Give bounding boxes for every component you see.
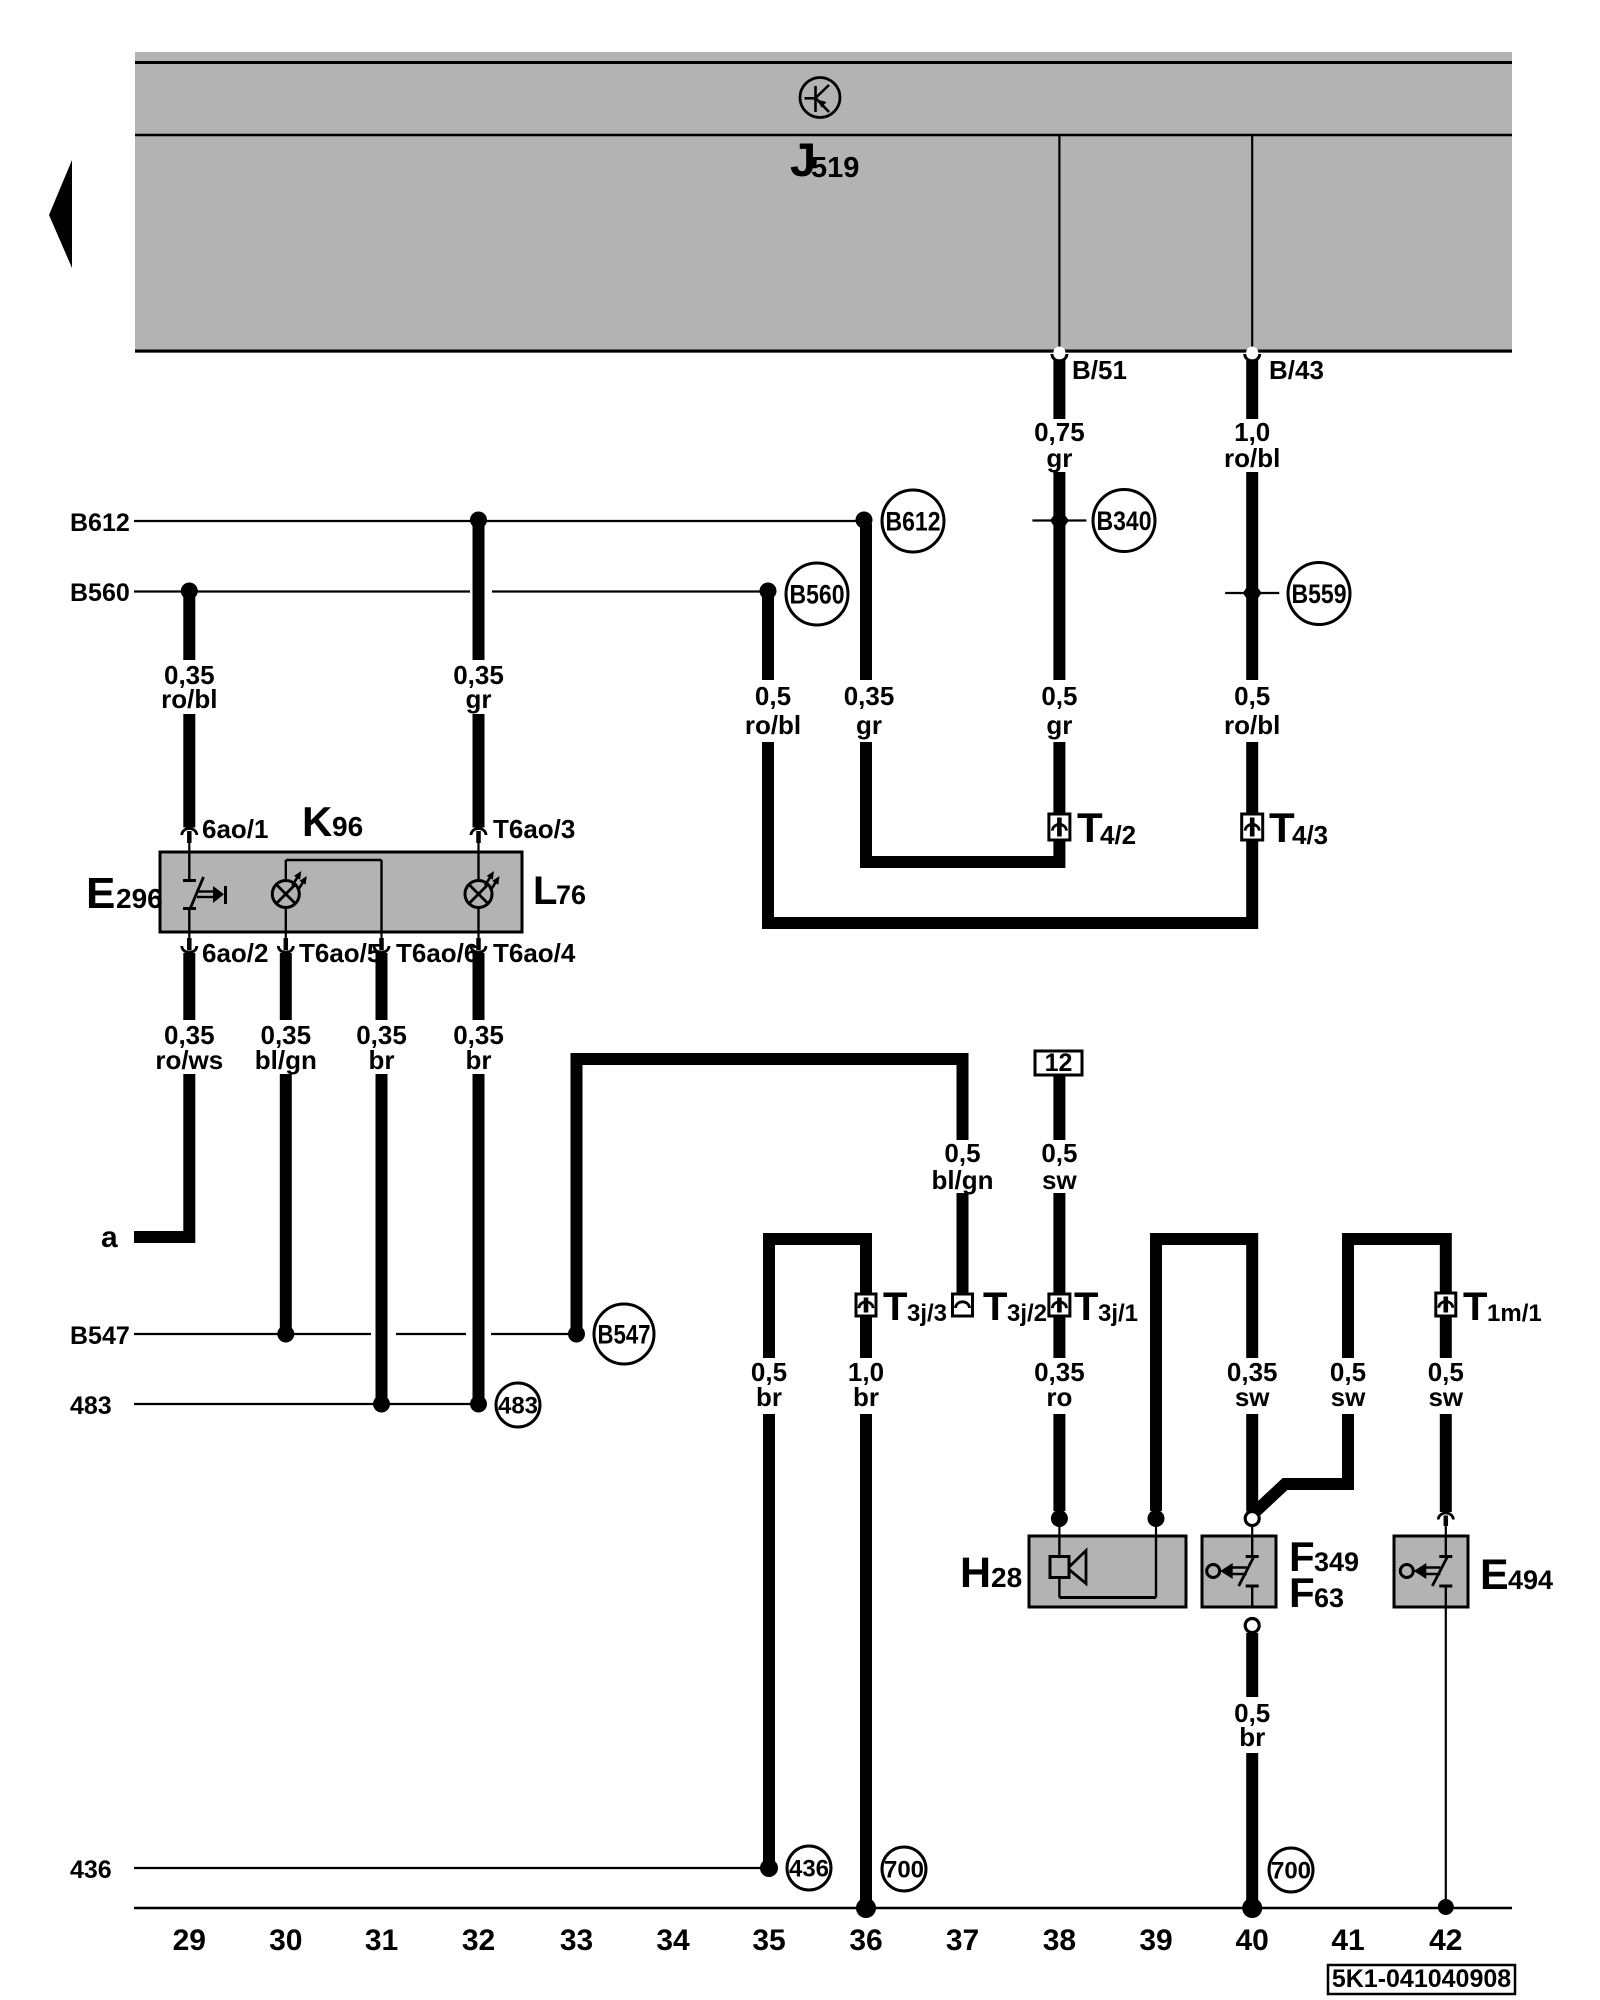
svg-text:0,5: 0,5 xyxy=(1041,681,1077,711)
svg-text:H: H xyxy=(960,1549,991,1597)
junction br t31 on 483 xyxy=(373,1396,390,1413)
wire 0,35 gr U-route to T4/2 xyxy=(866,742,1059,862)
F63 top lead xyxy=(1251,1526,1253,1536)
H28 pin2 lead xyxy=(1155,1526,1157,1536)
wire 0,5 br to 436 rail xyxy=(763,1414,775,1863)
svg-text:T6ao/4: T6ao/4 xyxy=(493,938,576,968)
svg-text:349: 349 xyxy=(1314,1547,1359,1577)
junction br t32 on 483 xyxy=(470,1396,487,1413)
svg-text:28: 28 xyxy=(991,1562,1022,1593)
J519 band bottom border line xyxy=(135,350,1512,353)
svg-text:E: E xyxy=(1480,1551,1509,1599)
svg-text:B/43: B/43 xyxy=(1269,355,1324,385)
connector T3j/1 xyxy=(1049,1294,1070,1316)
svg-text:76: 76 xyxy=(556,880,586,910)
pin socket at E494 xyxy=(1438,1513,1453,1519)
wire 0,5 sw kink into F63 splice xyxy=(1254,1414,1348,1513)
positive wire rail B560 (left) xyxy=(134,590,470,592)
svg-text:K: K xyxy=(302,798,332,845)
designation circle B612 xyxy=(882,490,944,552)
pin T6ao/5 socket xyxy=(285,931,287,940)
wire 0,5 sw t42 (upper) xyxy=(1440,1316,1452,1358)
ground rail 436 xyxy=(134,1867,768,1869)
svg-text:700: 700 xyxy=(1271,1858,1311,1885)
svg-text:ro/ws: ro/ws xyxy=(155,1045,223,1075)
svg-text:T6ao/3: T6ao/3 xyxy=(493,814,575,844)
svg-text:br: br xyxy=(853,1382,879,1412)
connector T3j/3 xyxy=(856,1294,876,1316)
svg-text:sw: sw xyxy=(1428,1382,1463,1412)
ground rail B547 segment 2 xyxy=(396,1333,466,1335)
junction 0,5 br on 436 xyxy=(760,1859,778,1877)
pin T6ao/6 socket xyxy=(380,931,382,940)
svg-text:63: 63 xyxy=(1314,1583,1344,1613)
wire 0,35 ro/bl from B560 to E296 (upper) xyxy=(183,594,195,660)
switch symbol F63 xyxy=(1251,1536,1253,1557)
svg-text:T6ao/6: T6ao/6 xyxy=(396,938,478,968)
wire loop 436 to T3j/3 xyxy=(769,1239,866,1358)
connector T1m/1 xyxy=(1436,1293,1456,1316)
H28 pin1 lead xyxy=(1058,1526,1060,1536)
svg-text:ro/bl: ro/bl xyxy=(745,710,801,740)
svg-text:B559: B559 xyxy=(1292,579,1347,609)
indicator lamp K96 symbol xyxy=(272,881,299,908)
junction 0,5 br on ground rail xyxy=(1242,1898,1262,1918)
designation circle 436 xyxy=(787,1846,831,1890)
horn H28 box xyxy=(1029,1536,1186,1607)
indicator lamp L76 symbol xyxy=(465,881,492,908)
wire end splice at H28 pin 2 xyxy=(1148,1510,1165,1527)
wire 0,35 br t32 (upper) xyxy=(473,953,485,1020)
svg-text:sw: sw xyxy=(1235,1382,1270,1412)
J519 band top border line xyxy=(135,61,1512,64)
svg-text:34: 34 xyxy=(656,1924,690,1957)
switch E296 symbol xyxy=(188,852,190,880)
svg-text:12: 12 xyxy=(1045,1049,1073,1077)
svg-text:0,5: 0,5 xyxy=(1234,681,1270,711)
svg-text:96: 96 xyxy=(332,811,363,842)
svg-text:35: 35 xyxy=(752,1924,785,1957)
wire ro/bl down to B559 splice xyxy=(1246,472,1258,680)
svg-text:gr: gr xyxy=(1046,710,1072,740)
svg-text:sw: sw xyxy=(1331,1382,1366,1412)
svg-text:B547: B547 xyxy=(70,1322,130,1350)
svg-text:483: 483 xyxy=(498,1393,538,1420)
wire 0,35 bl/gn to B547 xyxy=(280,1074,292,1330)
svg-text:gr: gr xyxy=(1046,443,1072,473)
wire 0,35 br t32 to 483 xyxy=(473,1074,485,1400)
svg-text:B612: B612 xyxy=(886,507,941,537)
wire 0,5 ro/bl down to connector T4/3 xyxy=(1246,742,1258,814)
svg-text:1m/1: 1m/1 xyxy=(1487,1300,1542,1327)
svg-text:3j/3: 3j/3 xyxy=(907,1300,947,1327)
designation circle B560 xyxy=(786,563,848,625)
svg-text:30: 30 xyxy=(269,1924,302,1957)
pin T6ao/3 socket xyxy=(471,829,486,835)
splice circle below F63 xyxy=(1245,1619,1259,1633)
socket symbol at J519 pin B/51 xyxy=(1053,347,1065,359)
svg-text:ro/bl: ro/bl xyxy=(1224,710,1280,740)
svg-text:3j/2: 3j/2 xyxy=(1007,1300,1047,1327)
svg-text:T: T xyxy=(883,1285,907,1329)
positive wire rail B560 (right) xyxy=(492,590,768,592)
direction arrow left of J519 xyxy=(49,160,72,268)
svg-text:0,5: 0,5 xyxy=(944,1138,980,1168)
junction 1,0 br on ground rail xyxy=(856,1898,876,1918)
wire 1,0 br (upper) xyxy=(860,1316,872,1358)
junction of B560 wire end xyxy=(760,583,777,600)
wire 0,35 gr to pin T6ao/3 xyxy=(473,714,485,828)
wire 0,35 br t31 to 483 xyxy=(376,1074,388,1400)
pin T6ao/4 socket xyxy=(477,931,479,940)
svg-text:B560: B560 xyxy=(70,579,130,607)
splice tick line at B340 xyxy=(1032,519,1086,521)
svg-text:700: 700 xyxy=(884,1857,924,1884)
svg-text:38: 38 xyxy=(1043,1924,1076,1957)
junction of B612 wire end xyxy=(856,512,873,529)
junction E494 lead on ground rail xyxy=(1438,1899,1454,1915)
svg-text:L: L xyxy=(533,869,557,913)
diagram number box xyxy=(1328,1965,1515,1994)
wire 0,5 sw to T3j/1 xyxy=(1053,1193,1065,1294)
svg-text:3j/1: 3j/1 xyxy=(1098,1300,1138,1327)
svg-text:39: 39 xyxy=(1139,1924,1172,1957)
wire 0,35 ro (upper) xyxy=(1053,1316,1065,1358)
wire 0,5 br below F63 (upper) xyxy=(1246,1633,1258,1697)
wire 0,35 ro to H28 xyxy=(1053,1414,1065,1511)
svg-text:a: a xyxy=(101,1221,118,1254)
wire 0,35 bl/gn (upper) xyxy=(280,953,292,1020)
svg-text:br: br xyxy=(756,1382,782,1412)
svg-text:sw: sw xyxy=(1042,1165,1077,1195)
svg-text:42: 42 xyxy=(1429,1924,1462,1957)
K96 lamp internal wiring xyxy=(285,860,287,881)
wire loop H28 to F63 xyxy=(1156,1239,1252,1511)
wire gr down to B340 splice xyxy=(1053,472,1065,680)
splice B340 on gr wire xyxy=(1050,508,1069,534)
svg-text:32: 32 xyxy=(462,1924,495,1957)
wire 0,35 sw to splice at F63 xyxy=(1246,1414,1258,1512)
svg-text:ro/bl: ro/bl xyxy=(161,684,217,714)
svg-text:B560: B560 xyxy=(790,580,845,610)
wire 1,0 br to ground rail xyxy=(860,1414,872,1903)
switch E494 box xyxy=(1394,1536,1468,1607)
control unit J519 body xyxy=(135,52,1512,353)
svg-text:br: br xyxy=(1239,1722,1265,1752)
svg-text:0,5: 0,5 xyxy=(1041,1138,1077,1168)
E494 ground lead to rail xyxy=(1445,1607,1447,1903)
svg-text:br: br xyxy=(466,1045,492,1075)
svg-text:33: 33 xyxy=(560,1924,593,1957)
junction of gr wire on B612 xyxy=(470,512,487,529)
svg-text:29: 29 xyxy=(173,1924,206,1957)
svg-text:37: 37 xyxy=(946,1924,979,1957)
wire inside J519 to pin B/43 xyxy=(1251,136,1253,357)
svg-text:41: 41 xyxy=(1331,1924,1364,1957)
svg-text:E: E xyxy=(86,869,115,918)
svg-text:31: 31 xyxy=(365,1924,398,1957)
svg-text:436: 436 xyxy=(789,1856,829,1883)
splice circle above F63 xyxy=(1245,1512,1259,1526)
ground rail 483 xyxy=(134,1403,479,1405)
wire 0,35 ro/ws to terminal a xyxy=(134,1074,189,1237)
terminal 12 box xyxy=(1035,1051,1082,1075)
svg-text:T6ao/5: T6ao/5 xyxy=(299,938,381,968)
svg-text:296: 296 xyxy=(116,883,163,914)
loudspeaker symbol in H28 xyxy=(1050,1557,1069,1578)
L76 lamp internal wiring xyxy=(477,852,479,881)
wire 0,35 ro/ws (upper) xyxy=(183,953,195,1020)
H28 internal wiring xyxy=(1058,1536,1060,1557)
designation circle 483 xyxy=(496,1383,540,1427)
wire 0,5 sw from terminal 12 xyxy=(1053,1075,1065,1140)
J519 band inner horizontal line xyxy=(135,134,1512,137)
connector T4/2 xyxy=(1049,814,1070,840)
ground rail B547 segment 3 xyxy=(491,1333,577,1335)
wire 1,0 ro/bl from J519 B/43 (upper) xyxy=(1246,361,1258,420)
wire 0,35 gr from B612 (upper) xyxy=(860,524,872,680)
bus system symbol in J519 xyxy=(800,78,840,118)
switch symbol E494 xyxy=(1445,1536,1447,1557)
wire inside J519 to pin B/51 xyxy=(1058,136,1060,357)
wire 0,75 gr from J519 B/51 (upper) xyxy=(1053,361,1065,420)
svg-text:0,35: 0,35 xyxy=(844,681,895,711)
wire 0,35 gr from B612 to L76 (upper) xyxy=(473,524,485,660)
socket symbol at J519 pin B/43 xyxy=(1246,347,1258,359)
svg-text:bl/gn: bl/gn xyxy=(931,1165,993,1195)
wire loop 0,5 sw pair xyxy=(1348,1239,1446,1358)
svg-text:T: T xyxy=(1074,1285,1098,1329)
svg-text:F: F xyxy=(1289,1569,1315,1616)
svg-text:bl/gn: bl/gn xyxy=(255,1045,317,1075)
svg-text:436: 436 xyxy=(70,1856,112,1884)
designation circle 700 right xyxy=(1269,1848,1313,1892)
svg-text:519: 519 xyxy=(811,152,859,184)
wire 0,35 ro/bl to pin 6ao/1 xyxy=(183,714,195,828)
junction of heavy wire end on B547 xyxy=(568,1326,585,1343)
positive wire rail B612 xyxy=(134,520,864,522)
ground rail bottom xyxy=(134,1907,1512,1909)
connector T3j/2 xyxy=(953,1294,973,1316)
svg-text:5K1-041040908: 5K1-041040908 xyxy=(1332,1965,1511,1993)
svg-text:B612: B612 xyxy=(70,509,130,537)
svg-text:40: 40 xyxy=(1236,1924,1269,1957)
svg-text:T: T xyxy=(983,1285,1007,1329)
ground rail B547 segment 1 xyxy=(134,1333,371,1335)
switch/lamp unit box E296/K96/L76 xyxy=(160,852,522,932)
wire end splice at H28 pin 1 xyxy=(1051,1510,1068,1527)
svg-text:4/3: 4/3 xyxy=(1292,820,1328,850)
svg-text:B340: B340 xyxy=(1097,506,1152,536)
svg-text:ro: ro xyxy=(1046,1382,1072,1412)
svg-text:gr: gr xyxy=(466,684,492,714)
svg-text:6ao/1: 6ao/1 xyxy=(202,814,269,844)
wire 0,5 bl/gn corner route xyxy=(577,1059,963,1330)
wire 0,5 ro/bl U-route to T4/3 xyxy=(768,742,1252,923)
pin 6ao/2 socket xyxy=(188,931,190,940)
svg-text:4/2: 4/2 xyxy=(1100,820,1136,850)
wire 0,5 ro/bl from B560 (upper) xyxy=(762,594,774,680)
wire 0,5 bl/gn to T3j/2 xyxy=(957,1193,969,1294)
designation circle 700 left xyxy=(882,1847,926,1891)
svg-text:494: 494 xyxy=(1508,1565,1553,1595)
svg-text:B547: B547 xyxy=(598,1320,651,1350)
switch F349/F63 box xyxy=(1202,1536,1276,1607)
svg-text:B/51: B/51 xyxy=(1072,355,1127,385)
svg-text:gr: gr xyxy=(856,710,882,740)
connector T4/3 xyxy=(1242,814,1263,840)
junction bl/gn on B547 xyxy=(277,1326,294,1343)
wire 0,5 br to ground rail xyxy=(1246,1753,1258,1903)
pin 6ao/1 socket xyxy=(182,829,197,835)
wire 0,35 br t31 (upper) xyxy=(376,953,388,1020)
svg-text:T: T xyxy=(1463,1285,1487,1329)
designation circle B547 xyxy=(594,1304,654,1364)
junction of ro/bl wire on B560 xyxy=(181,583,198,600)
wire 0,5 sw to E494 xyxy=(1440,1414,1452,1512)
wire 0,5 gr down to connector T4/2 xyxy=(1053,742,1065,814)
designation circle B340 xyxy=(1093,490,1155,552)
svg-text:0,5: 0,5 xyxy=(755,681,791,711)
svg-text:ro/bl: ro/bl xyxy=(1224,443,1280,473)
svg-text:6ao/2: 6ao/2 xyxy=(202,938,269,968)
svg-text:36: 36 xyxy=(849,1924,882,1957)
splice B559 on ro/bl wire xyxy=(1243,580,1262,606)
splice tick line at B559 xyxy=(1225,592,1279,594)
designation circle B559 xyxy=(1288,563,1350,625)
svg-text:483: 483 xyxy=(70,1392,112,1420)
svg-text:br: br xyxy=(369,1045,395,1075)
